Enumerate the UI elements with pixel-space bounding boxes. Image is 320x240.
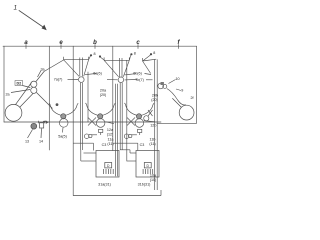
svg-text:a: a: [24, 40, 28, 46]
svg-text:(11): (11): [149, 142, 155, 146]
svg-text:f: f: [178, 40, 181, 46]
svg-text:2f: 2f: [190, 96, 194, 100]
svg-text:6a(6): 6a(6): [93, 72, 102, 76]
svg-text:31b(31): 31b(31): [138, 182, 151, 186]
svg-text:2a: 2a: [5, 93, 10, 97]
svg-text:D2: D2: [16, 82, 21, 86]
svg-text:(11): (11): [107, 142, 113, 146]
svg-text:7b(7): 7b(7): [135, 78, 144, 82]
svg-text:c: c: [136, 40, 140, 46]
svg-text:C3: C3: [140, 143, 145, 147]
svg-text:9: 9: [181, 89, 183, 93]
svg-text:7a(7): 7a(7): [54, 78, 63, 82]
svg-text:C3: C3: [102, 143, 107, 147]
svg-text:(20): (20): [151, 98, 158, 102]
svg-text:13: 13: [25, 140, 29, 144]
svg-text:12b: 12b: [150, 124, 156, 128]
svg-text:8: 8: [134, 51, 136, 55]
svg-text:6b(6): 6b(6): [133, 72, 142, 76]
svg-text:20b: 20b: [152, 93, 158, 97]
svg-text:(10): (10): [150, 178, 157, 182]
svg-text:5a(5): 5a(5): [58, 135, 67, 139]
svg-text:8: 8: [153, 51, 155, 55]
svg-text:1: 1: [14, 5, 18, 12]
svg-text:31a(31): 31a(31): [98, 182, 111, 186]
svg-text:b: b: [93, 40, 97, 46]
svg-text:(12): (12): [107, 132, 114, 136]
svg-text:(20): (20): [100, 93, 107, 97]
svg-text:8: 8: [93, 52, 95, 56]
svg-text:e: e: [59, 40, 63, 46]
svg-text:10: 10: [175, 77, 179, 81]
svg-text:14: 14: [39, 140, 43, 144]
